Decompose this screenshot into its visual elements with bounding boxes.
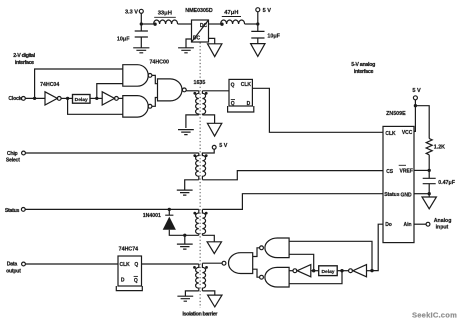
wire T2 secondary bottom to CS pin <box>202 171 383 180</box>
ground bar T3 <box>177 244 193 249</box>
phase dot T2 right <box>205 154 208 157</box>
ground triangle T3 <box>207 242 221 254</box>
transformer T4 secondary winding <box>202 263 205 291</box>
wire junction to VCC pin <box>414 106 415 132</box>
capacitor C2 10uF <box>251 24 264 44</box>
wire NAND C out to T1 <box>186 90 199 92</box>
capacitor C1 10uF <box>135 24 148 48</box>
phase dot T3 right <box>205 212 208 215</box>
svg-text:74HC04: 74HC04 <box>40 82 59 88</box>
junction Do node <box>370 269 373 272</box>
phase dot T4 right <box>205 266 208 269</box>
ground bar U2 <box>178 48 194 53</box>
svg-text:Q: Q <box>231 83 235 89</box>
ground triangle U2 <box>208 44 222 57</box>
phase dot T3 left <box>193 212 196 215</box>
wire T2 primary bottom to ground <box>185 180 199 190</box>
svg-text:10μF: 10μF <box>117 37 130 43</box>
svg-text:74HC00: 74HC00 <box>149 59 168 65</box>
ground bar T4 <box>177 296 193 301</box>
svg-text:CLK: CLK <box>385 131 396 137</box>
svg-text:VREF: VREF <box>400 168 413 174</box>
wire T4 primary bottom to ground <box>185 291 198 296</box>
wire U5 feedback bracket D to Q-bar <box>116 286 142 291</box>
ground bar T2 <box>177 190 193 195</box>
wire Data output to 74HC74 <box>25 263 118 265</box>
wire up to NAND A lower input <box>97 84 123 99</box>
isolation barrier dotted line <box>199 43 201 309</box>
ground bar T1 <box>178 130 194 135</box>
svg-text:DC: DC <box>193 36 201 42</box>
inverter G (left pointing) <box>297 265 311 277</box>
svg-text:VCC: VCC <box>402 130 413 136</box>
wire T2 secondary top to 5V <box>202 149 214 155</box>
nand gate B 74HC00 <box>123 96 148 118</box>
phase dot T1 right <box>205 92 208 95</box>
svg-text:NME0305D: NME0305D <box>185 8 213 14</box>
wire T3 secondary bottom to ground <box>202 235 214 242</box>
adc U1 ZN509E box <box>383 126 414 242</box>
svg-text:Ain: Ain <box>404 222 412 228</box>
phase dot T1 left <box>193 92 196 95</box>
wire Status to T3 <box>25 208 199 210</box>
wire clock up to NAND A input <box>35 69 123 98</box>
svg-text:Data: Data <box>7 262 18 268</box>
wire inverter H input from Do junction <box>367 270 373 272</box>
phase dot T2 left <box>193 154 196 157</box>
node 3.3V terminal <box>139 9 143 13</box>
inverter H (left pointing) <box>353 265 367 277</box>
svg-text:1N4001: 1N4001 <box>143 213 161 219</box>
svg-text:10μF: 10μF <box>267 33 280 39</box>
junction input node <box>140 22 143 25</box>
ground triangle T4 <box>208 295 222 307</box>
nand gate D (left pointing) <box>229 253 253 274</box>
node 5V terminal <box>256 8 260 12</box>
svg-text:Delay: Delay <box>321 269 334 275</box>
transformer T3 primary winding <box>196 209 199 235</box>
wire T1 primary bottom to ground <box>186 115 199 128</box>
wire Chip Select to T2 <box>25 152 198 154</box>
junction after U3A <box>66 97 69 100</box>
svg-text:SeekIC.com: SeekIC.com <box>412 311 457 320</box>
wire Delay to U3B <box>90 97 102 99</box>
wire NAND F out to NAND D input <box>253 269 260 277</box>
svg-text:Q: Q <box>231 101 235 107</box>
wire Delay to inverter H bubble <box>337 270 348 272</box>
nand gate E (left pointing) <box>265 238 289 258</box>
junction delay right <box>340 269 343 272</box>
diode D2 1N4001 <box>165 209 173 215</box>
svg-text:Status: Status <box>384 192 400 198</box>
node Analog input terminal <box>426 222 430 226</box>
wire NAND A out to NAND C <box>152 75 158 83</box>
wire U5 Q out to T4 <box>142 263 199 265</box>
junction GND <box>428 192 431 195</box>
wire junction to ground <box>428 194 430 197</box>
wire Clock to junction <box>25 97 45 99</box>
svg-text:5-V analog: 5-V analog <box>351 62 375 68</box>
wire 5V down to junction <box>414 100 416 106</box>
wire inverter G input from Delay <box>311 270 319 272</box>
svg-text:74HC74: 74HC74 <box>119 246 138 252</box>
capacitor C3 0.47uF <box>423 170 436 193</box>
wire down to NAND B lower input <box>68 98 123 114</box>
transformer T2 primary winding <box>196 153 199 180</box>
inverter U3A 74HC04 <box>45 92 57 105</box>
svg-text:47μH: 47μH <box>224 10 238 16</box>
wire inverter G out to NAND F input <box>289 270 293 272</box>
nand gate F output bubble <box>260 275 264 279</box>
svg-text:Delay: Delay <box>75 97 88 103</box>
node Data output terminal <box>22 262 26 266</box>
node 5V terminal right <box>413 96 417 100</box>
wire T4 secondary top to NAND D out <box>202 262 222 264</box>
wire junction to resistor <box>415 106 429 139</box>
wire T1 secondary top to 1635 box <box>202 90 229 92</box>
svg-text:Q: Q <box>134 262 138 268</box>
delay box D1 <box>73 95 91 104</box>
svg-text:5 V: 5 V <box>219 143 227 149</box>
ground triangle C2 <box>251 44 265 57</box>
junction delay left <box>312 269 315 272</box>
svg-text:0.47μF: 0.47μF <box>438 180 456 186</box>
node Clock terminal <box>22 97 26 101</box>
svg-text:CLK: CLK <box>120 262 131 268</box>
delay box D3 <box>319 266 338 276</box>
wire U4 out to ZN509E CLK <box>252 88 383 132</box>
wire junction to VREF pin <box>414 169 429 171</box>
svg-text:1635: 1635 <box>194 80 206 86</box>
node 5V terminal T2 <box>212 145 216 149</box>
svg-text:CS: CS <box>386 169 394 175</box>
dc-dc converter U2 NME0305D <box>192 20 209 42</box>
inverter G bubble <box>293 269 297 273</box>
phase dot T4 left <box>193 266 196 269</box>
svg-text:ZN509E: ZN509E <box>386 111 406 117</box>
svg-text:input: input <box>436 225 449 231</box>
wire NAND E top input from Do <box>289 241 372 270</box>
wire NAND E bottom input from delay junction <box>289 254 314 270</box>
wire inverter to Delay <box>61 97 72 99</box>
svg-text:5 V: 5 V <box>412 88 421 94</box>
svg-text:CLK: CLK <box>241 82 252 88</box>
wire U3B to NAND B input <box>118 97 123 99</box>
junction after Delay <box>95 97 98 100</box>
svg-text:output: output <box>6 269 21 275</box>
inductor L2 47uH <box>221 20 245 24</box>
svg-text:Clock: Clock <box>8 96 21 102</box>
svg-text:1.2K: 1.2K <box>434 144 445 150</box>
nand gate D output bubble <box>222 261 226 265</box>
wire up to 5V terminal <box>257 12 259 24</box>
svg-text:GND: GND <box>400 192 412 198</box>
svg-text:33μH: 33μH <box>158 11 172 17</box>
wire junction to GND pin <box>414 193 429 195</box>
wire L2 to 5V node <box>245 23 258 25</box>
svg-text:D: D <box>247 101 251 107</box>
nand gate C 74HC00 <box>158 79 183 101</box>
wire NAND F bottom input from delay-right junction <box>289 271 342 284</box>
junction clock node <box>33 97 36 100</box>
wire junction to ground <box>184 235 186 244</box>
resistor R1 1.2K <box>426 139 432 155</box>
wire NAND E out to NAND D input <box>253 248 260 257</box>
transformer T2 secondary winding <box>202 153 205 180</box>
junction diode node <box>168 208 171 211</box>
svg-text:3.3 V: 3.3 V <box>125 9 138 15</box>
svg-text:interface: interface <box>354 69 374 75</box>
node Chip Select terminal <box>22 151 26 155</box>
ground triangle right <box>422 197 436 209</box>
nand gate F (left pointing) <box>265 267 289 287</box>
svg-text:interface: interface <box>15 60 34 66</box>
ground triangle T1 <box>207 123 221 136</box>
inverter U3B 74HC04 <box>102 92 114 105</box>
inductor L1 33uH <box>154 20 178 24</box>
wire Do pin down to junction <box>372 224 383 270</box>
wire junction to L1 <box>141 23 153 25</box>
transformer T4 primary winding <box>196 264 199 291</box>
junction VREF <box>428 169 431 172</box>
node Status terminal <box>21 208 25 212</box>
wire T3 secondary top to Status pin <box>202 194 383 210</box>
wire T4 secondary bottom to ground <box>202 291 214 295</box>
svg-text:DC: DC <box>200 23 208 29</box>
wire U2 bottom-right to ground <box>209 38 215 43</box>
svg-text:Do: Do <box>385 222 392 228</box>
junction below diode <box>183 234 186 237</box>
svg-text:Isolation barrier: Isolation barrier <box>182 311 218 317</box>
wire resistor to VREF junction <box>428 155 430 171</box>
svg-text:Q: Q <box>134 278 138 284</box>
svg-text:Status: Status <box>5 208 20 214</box>
svg-text:2-V digital: 2-V digital <box>13 53 35 59</box>
wire T1 secondary bottom to ground <box>202 115 214 123</box>
svg-text:Chip: Chip <box>7 151 18 157</box>
wire U4 feedback bracket Q-bar to D <box>228 106 254 112</box>
junction 5V node <box>256 22 259 25</box>
wire L1 to U2 <box>178 23 192 25</box>
transformer T1 primary winding <box>196 91 199 115</box>
wire U2 bottom-left to ground <box>186 39 192 48</box>
flip-flop U4 1635 box <box>229 79 252 106</box>
svg-text:D: D <box>121 278 125 284</box>
flip-flop U5 74HC74 box <box>118 256 142 286</box>
wire NAND B out to NAND C <box>152 98 158 107</box>
transformer T3 secondary winding <box>202 209 205 235</box>
wire 3.3V down to junction <box>140 13 142 24</box>
ground bar C1 <box>133 48 149 53</box>
svg-text:Analog: Analog <box>434 218 452 224</box>
inverter H bubble <box>349 269 353 273</box>
wire Ain to analog input terminal <box>414 223 426 225</box>
svg-text:Select: Select <box>6 158 20 164</box>
transformer T1 secondary winding <box>202 91 205 115</box>
svg-text:5 V: 5 V <box>263 8 272 14</box>
wire U2 out to L2 <box>209 23 221 25</box>
nand gate A 74HC00 <box>123 65 148 87</box>
junction 5V right <box>414 104 417 107</box>
nand gate E output bubble <box>260 246 264 250</box>
